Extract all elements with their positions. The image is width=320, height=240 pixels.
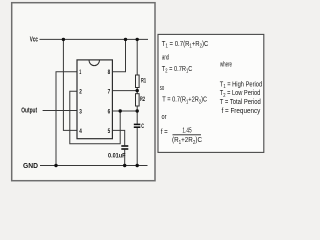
svg-text:f =: f =	[161, 129, 168, 136]
svg-text:1: 1	[79, 69, 81, 76]
node: Vcc junction dot to R1	[136, 38, 139, 41]
wire pin 7 to R1/R2 junction	[112, 90, 137, 92]
wire R column from Vcc	[136, 39, 138, 75]
wire pin 8 to Vcc	[112, 39, 125, 71]
formula box	[158, 34, 264, 152]
svg-text:C: C	[141, 123, 144, 130]
svg-text:R1: R1	[141, 77, 146, 84]
page background	[0, 0, 268, 188]
capacitor C	[134, 124, 141, 127]
schematic frame	[12, 3, 155, 181]
node: Vcc junction dot to pin4	[62, 38, 65, 41]
svg-text:4: 4	[79, 128, 82, 135]
resistor R1	[136, 75, 140, 88]
resistor R2	[136, 94, 140, 106]
svg-text:2: 2	[79, 89, 82, 96]
svg-text:6: 6	[108, 108, 111, 115]
wire pin 1 to GND	[56, 72, 77, 166]
capacitor 0.01uF	[121, 146, 128, 149]
wire bypass cap to GND	[124, 150, 126, 166]
svg-text:R2: R2	[140, 96, 145, 103]
node: GND junction timing cap	[136, 164, 139, 167]
wire GND rail	[40, 165, 148, 167]
svg-text:7: 7	[108, 89, 111, 96]
svg-text:where: where	[219, 61, 232, 68]
svg-text:and: and	[162, 54, 169, 61]
node: Vcc junction dot to pin8	[124, 38, 127, 41]
node: R1/R2/pin7 junction	[136, 89, 139, 92]
wire R2 to junction and C	[136, 106, 138, 124]
svg-text:3: 3	[79, 108, 82, 115]
node: GND junction bypass cap	[123, 164, 126, 167]
node: R2/C/pin6 junction	[136, 109, 139, 112]
wire pin 6 to R2/C junction	[112, 110, 137, 112]
svg-text:1.45: 1.45	[182, 128, 191, 135]
wire C to GND	[136, 128, 138, 166]
svg-text:GND: GND	[23, 163, 38, 170]
svg-text:Vcc: Vcc	[30, 37, 38, 44]
wire pin 2 trigger loop to pin 6	[70, 91, 120, 144]
wire pin 5 to bypass cap	[112, 130, 124, 145]
node: trigger/threshold junction on pin6 wire	[119, 109, 122, 112]
svg-text:f = Frequency: f = Frequency	[222, 108, 261, 115]
svg-text:8: 8	[108, 69, 111, 76]
wire Vcc to pin 4 (reset)	[63, 39, 77, 130]
node: GND junction pin1 wire	[54, 164, 57, 167]
wire R1 to junction	[136, 88, 138, 94]
svg-text:or: or	[162, 114, 168, 121]
wire output to pin 3	[43, 110, 77, 112]
svg-text:Output: Output	[21, 108, 37, 115]
svg-text:so: so	[160, 85, 165, 92]
svg-text:0.01uF: 0.01uF	[108, 153, 126, 160]
svg-text:T = Total Period: T = Total Period	[220, 99, 261, 106]
op-amp U1 555 timer body	[77, 60, 112, 139]
svg-text:5: 5	[108, 128, 111, 135]
wire Vcc rail	[40, 38, 149, 40]
